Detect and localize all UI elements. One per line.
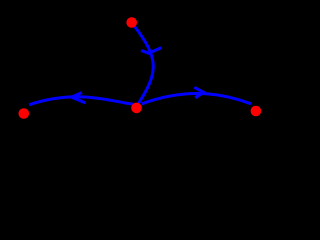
arrowhead mid-path on center-to-left edge (points left): [72, 93, 86, 103]
node center (red dot): [131, 103, 142, 114]
edge center-node to right-node (blue arc bulging up): [142, 94, 251, 104]
node right (red dot): [251, 106, 262, 117]
node left (red dot): [19, 108, 30, 119]
arrowhead mid-path on center-to-right edge (points right): [194, 87, 203, 98]
node top (red dot): [126, 17, 137, 28]
edge center-node to left-node (blue arc bulging up): [29, 97, 133, 105]
arrowhead mid-path on top-to-center edge (points down): [141, 48, 161, 54]
edge top-node to center-node (blue curve bulging right): [134, 26, 153, 103]
